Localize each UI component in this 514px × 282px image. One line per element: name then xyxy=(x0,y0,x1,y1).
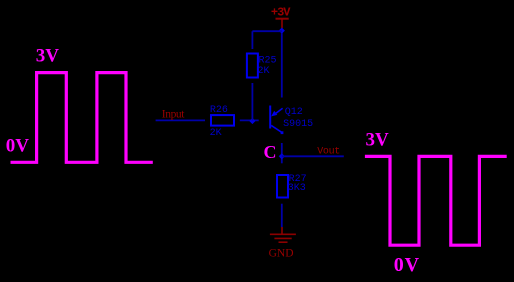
resistor R25 (2K, vertical box) xyxy=(247,54,258,78)
wire: +3V rail down to R25 top pin xyxy=(251,31,253,49)
input square wave (left, 0V idle, pulses to 3V) xyxy=(11,73,153,163)
label Vout (net name) xyxy=(317,146,340,157)
svg-text:R26: R26 xyxy=(210,105,228,116)
power port +3V xyxy=(271,6,291,29)
wire: R26 right pin to base node xyxy=(240,119,259,121)
svg-text:GND: GND xyxy=(269,247,294,259)
wire: R27 bottom pin down to ground xyxy=(281,204,283,228)
node junction at C (collector/R27/Vout) xyxy=(279,153,285,159)
label 2K (R26 value) xyxy=(210,128,222,139)
svg-text:Input: Input xyxy=(162,108,185,120)
wire: R25 bottom pin to base junction xyxy=(251,83,253,120)
svg-text:3V: 3V xyxy=(366,129,390,150)
svg-text:3V: 3V xyxy=(36,46,60,67)
node junction at +3V rail xyxy=(279,27,285,33)
svg-text:R25: R25 xyxy=(259,55,277,66)
output square wave (right, 3V idle, pulses to 0V) xyxy=(365,156,507,245)
svg-text:C: C xyxy=(264,142,277,162)
svg-text:Vout: Vout xyxy=(317,146,340,157)
wire: Vout net horizontal segment xyxy=(282,155,344,157)
label Input (net name) xyxy=(162,108,185,120)
svg-text:+3V: +3V xyxy=(271,6,291,20)
svg-text:Q12: Q12 xyxy=(285,107,303,118)
wire: Input net horizontal segment xyxy=(156,119,205,121)
svg-text:S9015: S9015 xyxy=(283,119,313,130)
label 2K (R25 value) xyxy=(258,66,270,77)
label S9015 (Q12 part number) xyxy=(283,119,313,130)
label 3K3 (R27 value) xyxy=(288,183,306,194)
wire: Q12 collector pin down to node C xyxy=(281,143,283,163)
label 3V (right waveform high level) xyxy=(366,129,390,150)
label Q12 xyxy=(285,107,303,118)
svg-text:2K: 2K xyxy=(258,66,270,77)
svg-text:3K3: 3K3 xyxy=(288,183,306,194)
ground symbol GND xyxy=(269,227,296,259)
svg-text:2K: 2K xyxy=(210,128,222,139)
node junction at base (R25/R26/base) xyxy=(249,118,255,124)
label 3V (left waveform high level) xyxy=(36,46,60,67)
wire: +3V rail horizontal to R25 column xyxy=(252,30,281,32)
node C label xyxy=(264,142,277,162)
label R26 xyxy=(210,105,228,116)
transistor Q12 (PNP S9015) xyxy=(270,106,283,135)
resistor R27 (3K3, vertical box) xyxy=(277,175,288,198)
wire: +3V junction down to Q12 emitter pin xyxy=(281,33,283,98)
svg-text:0V: 0V xyxy=(394,254,420,276)
label R25 xyxy=(259,55,277,66)
resistor R26 (2K, horizontal box) xyxy=(211,115,234,126)
label 0V (right waveform low level) xyxy=(394,254,420,276)
label R27 xyxy=(289,174,307,185)
label 0V (left waveform low level) xyxy=(6,136,30,157)
svg-text:0V: 0V xyxy=(6,136,30,157)
